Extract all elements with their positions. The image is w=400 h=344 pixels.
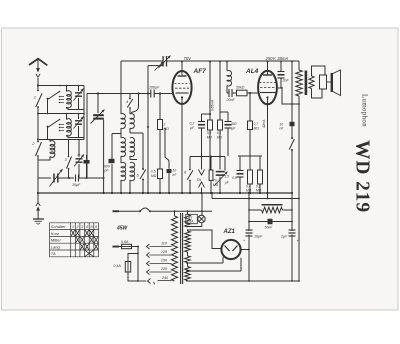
- AF7 top cap: [181, 61, 183, 63]
- resistor 0.5M lower x160: [158, 169, 163, 179]
- voltage selector taps: [150, 246, 172, 248]
- table marks Lang: [80, 244, 84, 250]
- switch 3: [68, 140, 70, 157]
- wire: [58, 177, 75, 179]
- switch 2: [36, 142, 42, 156]
- coil pair 3: [121, 162, 126, 180]
- wire stub: [137, 92, 139, 94]
- wire x148 oscillator: [147, 94, 149, 194]
- main bus wire: [38, 192, 292, 194]
- capacitor 300uF: [227, 112, 229, 122]
- mains wire upper: [113, 210, 120, 212]
- AF7 cathode: [181, 96, 183, 98]
- wire right edge section 1: [83, 86, 85, 114]
- output transformer secondary: [309, 76, 314, 89]
- svg-text:MΩ: MΩ: [164, 127, 170, 131]
- wire: [37, 107, 39, 140]
- switch 4: [129, 98, 131, 100]
- coil L2: [67, 119, 72, 136]
- svg-text:220: 220: [160, 267, 168, 271]
- capacitor 2nF: [280, 61, 282, 63]
- tap 240: [138, 280, 146, 282]
- AL4 screen grid: [260, 87, 275, 89]
- svg-text:75: 75: [77, 153, 81, 157]
- wire B+ riser: [248, 193, 250, 231]
- svg-text:MΩ: MΩ: [213, 183, 219, 187]
- wire to grid rail: [79, 177, 89, 179]
- switch position table: [50, 222, 99, 224]
- capacitor 10nF: [168, 161, 170, 169]
- TA terminals: [201, 157, 203, 170]
- rectifier tube AZ1: [221, 240, 240, 259]
- band selector section 1 rail: [38, 85, 84, 87]
- wire: [103, 120, 105, 193]
- resistor 70M: [210, 157, 212, 171]
- svg-text:2: 2: [163, 123, 166, 127]
- svg-text:150: 150: [161, 259, 168, 263]
- wire AZ1 output: [241, 249, 249, 251]
- capacitor 1.5uF: [219, 157, 221, 170]
- wire elbow to 10nF: [165, 128, 169, 161]
- capacitor 10nF screen: [290, 122, 295, 126]
- svg-text:+: +: [297, 239, 299, 243]
- svg-text:1: 1: [72, 225, 74, 229]
- capacitor fixed padder: [86, 155, 88, 160]
- node: [97, 92, 99, 94]
- switch contact section 2: [47, 127, 49, 140]
- svg-text:MΩ: MΩ: [254, 126, 260, 130]
- fuse 0.6A: [122, 244, 132, 248]
- svg-text:240: 240: [161, 276, 169, 280]
- tuning capacitor gang 2: [93, 114, 104, 116]
- tuning capacitor gang 1: [53, 174, 55, 183]
- switch on screen line: [291, 137, 293, 139]
- field coil choke: [262, 204, 283, 206]
- svg-text:50nF: 50nF: [265, 226, 274, 230]
- resistor 0.7M: [249, 93, 251, 121]
- switch 1: [36, 94, 42, 108]
- band selector section 2 lower rail: [38, 139, 84, 141]
- svg-text:Lang: Lang: [51, 244, 61, 249]
- svg-text:0,65mA: 0,65mA: [211, 100, 215, 111]
- winding heater: [185, 267, 191, 281]
- capacitor 50nF: [249, 221, 292, 223]
- coil pair 2: [121, 137, 125, 156]
- AF7 screen grid: [175, 87, 189, 89]
- svg-text:AF7: AF7: [193, 68, 207, 75]
- AF7 grid: [175, 83, 190, 85]
- svg-text:MΩ: MΩ: [207, 136, 213, 140]
- op tube AF7 envelope: [172, 71, 191, 104]
- svg-text:+: +: [243, 239, 245, 243]
- svg-text:2nF: 2nF: [282, 79, 290, 83]
- svg-text:Mittel: Mittel: [51, 238, 61, 243]
- capacitor 0.2uF: [201, 114, 203, 122]
- svg-text:4: 4: [86, 225, 88, 229]
- capacitor 0.5: [239, 156, 241, 171]
- svg-text:6: 6: [95, 225, 97, 229]
- wire: [132, 246, 139, 248]
- wire: [120, 156, 122, 163]
- capacitor 16uF electrolytic: [246, 229, 253, 231]
- speaker voice coil loop: [312, 66, 326, 76]
- wire top rail corner down to oscillator section: [120, 61, 122, 114]
- svg-text:110: 110: [161, 242, 168, 246]
- resistor 0.8M lower: [259, 156, 261, 170]
- svg-text:1: 1: [34, 95, 36, 100]
- table marks Mittel: [76, 237, 80, 243]
- speaker: [327, 81, 332, 83]
- lamp rating box 4V 0.6A: [186, 214, 198, 223]
- resistor 0.8M from top rail: [209, 61, 211, 63]
- wire right edge section 2: [83, 114, 85, 140]
- capacitor 20nF: [227, 92, 229, 94]
- resistor 2M from grid rail: [159, 94, 161, 120]
- winding HV: [185, 231, 191, 252]
- svg-text:50kΩ: 50kΩ: [236, 86, 245, 90]
- svg-text:2µF: 2µF: [280, 234, 288, 238]
- wire lamp bottom: [187, 223, 202, 226]
- AF7 anode: [176, 92, 189, 94]
- antenna: [29, 59, 47, 66]
- svg-text:WD 219: WD 219: [352, 140, 374, 213]
- resistor 50k: [232, 92, 237, 94]
- svg-text:AL4: AL4: [245, 68, 259, 75]
- ground: [37, 193, 39, 203]
- svg-text:1,5: 1,5: [224, 174, 229, 178]
- coil L3 long wave: [50, 141, 55, 158]
- dial lamp: [198, 215, 205, 222]
- wire: [120, 128, 122, 138]
- svg-text:0,6A: 0,6A: [121, 240, 129, 244]
- trimmer C1: [78, 86, 80, 92]
- svg-text:3: 3: [81, 225, 83, 229]
- wire top rail corner to output transformer: [298, 61, 300, 70]
- wire AL4 anode: [276, 88, 299, 104]
- wire gang link down: [147, 66, 149, 94]
- table marks TA: [85, 250, 93, 256]
- wire AZ1 filament left: [186, 262, 223, 264]
- wire tie: [190, 156, 225, 158]
- mains switch: [139, 210, 141, 212]
- wire antenna down: [37, 78, 39, 86]
- svg-text:TA: TA: [51, 251, 56, 256]
- svg-text:AZ1: AZ1: [223, 229, 236, 235]
- svg-text:15µF: 15µF: [72, 183, 81, 187]
- wire HV top to AZ1: [188, 230, 222, 249]
- wire to AL4 grid: [247, 92, 259, 94]
- power transformer core: [180, 213, 182, 284]
- svg-text:45W: 45W: [116, 226, 129, 232]
- svg-text:70V: 70V: [184, 56, 193, 61]
- capacitor 15uF series: [75, 175, 77, 182]
- svg-text:0,5: 0,5: [232, 176, 237, 180]
- svg-text:MΩ: MΩ: [151, 174, 157, 178]
- svg-text:0,7: 0,7: [254, 122, 259, 126]
- wire tie 2: [238, 155, 262, 157]
- svg-text:125: 125: [161, 250, 168, 254]
- svg-text:300: 300: [231, 122, 237, 126]
- svg-text:0,2: 0,2: [217, 131, 222, 135]
- wire: [120, 180, 122, 193]
- top rail wire: [121, 60, 163, 62]
- wire lamp drop: [201, 193, 203, 215]
- resistor 0.2M x220 from top rail: [219, 61, 221, 63]
- wire AF7 cathode down: [181, 104, 183, 194]
- svg-text:2: 2: [76, 225, 79, 229]
- coil RF choke: [226, 61, 228, 63]
- band selector section 1 lower rail: [38, 113, 84, 115]
- svg-text:MΩ: MΩ: [256, 189, 262, 193]
- switch 6: [189, 157, 191, 170]
- variable capacitor 2-gang tuning: [162, 56, 164, 67]
- AL4 anode: [260, 92, 276, 94]
- switch 5: [142, 133, 144, 169]
- svg-text:5: 5: [91, 225, 93, 229]
- wire screen supply: [291, 61, 293, 63]
- svg-text:0,8: 0,8: [207, 131, 212, 135]
- svg-text:Lumophon: Lumophon: [361, 94, 369, 127]
- wire: [97, 94, 99, 114]
- AL4 top cap: [267, 61, 269, 63]
- trimmer C2: [78, 114, 80, 120]
- svg-text:100µF: 100µF: [149, 86, 160, 90]
- power transformer primary winding: [172, 216, 178, 281]
- AL4 cathode: [266, 96, 268, 98]
- resistor 0.4M: [249, 156, 251, 170]
- wire AZ1 filament right: [186, 270, 241, 272]
- table marks Kurz: [71, 230, 75, 236]
- wire: [62, 177, 74, 179]
- oscillator coil pair 1: [121, 114, 125, 129]
- trimmer 75pF: [78, 140, 80, 158]
- svg-text:Kurz: Kurz: [51, 231, 59, 236]
- wire AL4 cathode: [267, 98, 269, 199]
- svg-text:20nF: 20nF: [226, 98, 236, 102]
- svg-text:42mA: 42mA: [262, 120, 266, 128]
- svg-text:250V, 38mA: 250V, 38mA: [265, 56, 289, 61]
- fuse 0.4A branch: [128, 254, 138, 262]
- svg-text:16µF: 16µF: [254, 234, 263, 238]
- AL4 grid: [260, 82, 276, 84]
- wire to tuning cap: [37, 160, 39, 178]
- svg-text:TA: TA: [197, 178, 202, 182]
- bottom rail wire: [186, 280, 299, 282]
- antenna lead-in connector: [36, 74, 40, 77]
- wire: [37, 156, 39, 193]
- output transformer primary: [296, 70, 302, 96]
- wire heater line: [211, 193, 213, 199]
- winding 4V pilot: [185, 215, 191, 228]
- switch contact section 1: [47, 99, 49, 114]
- mains wire lower: [113, 246, 120, 248]
- capacitor 600pF: [111, 134, 113, 160]
- svg-text:0,5: 0,5: [151, 170, 156, 174]
- capacitor 2uF electrolytic: [289, 229, 296, 231]
- grid rail wire: [87, 93, 151, 95]
- wire: [298, 104, 300, 281]
- svg-text:Schalter: Schalter: [51, 224, 66, 229]
- winding rect filament: [185, 256, 191, 263]
- coil L1: [67, 91, 72, 108]
- output transformer core: [305, 71, 308, 96]
- svg-text:MΩ: MΩ: [217, 136, 223, 140]
- svg-text:0,4A: 0,4A: [114, 264, 122, 268]
- power tube AL4 envelope: [258, 71, 277, 105]
- capacitor 100uF coupling: [150, 90, 152, 98]
